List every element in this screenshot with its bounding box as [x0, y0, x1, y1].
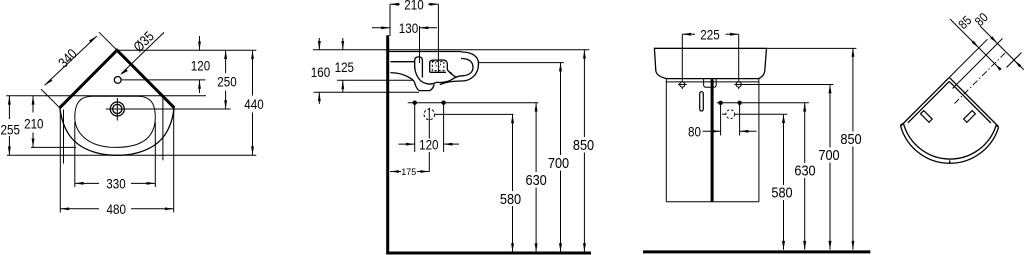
dimension 85 leader: [950, 19, 997, 66]
extension 480 right: [173, 110, 175, 213]
fixing dot left: [413, 101, 417, 105]
svg-text:580: 580: [771, 184, 792, 201]
right tab: [964, 111, 976, 123]
cabinet bottom: [666, 201, 759, 203]
dimension 255: [8, 96, 10, 119]
svg-text:160: 160: [311, 64, 330, 80]
bowl outline: [75, 96, 156, 147]
210 left extension (wall face up): [389, 4, 391, 36]
inner front arc: [903, 123, 996, 159]
dimension 80 (outside arrows): [703, 130, 721, 132]
svg-text:480: 480: [106, 201, 125, 217]
svg-text:580: 580: [500, 190, 521, 207]
dimension 700: [560, 63, 562, 155]
svg-text:440: 440: [244, 96, 263, 112]
back edge left (thick): [60, 50, 175, 108]
door handle slot: [700, 92, 704, 111]
ref line apex level: [117, 49, 256, 51]
fixing screw circle left: [680, 82, 685, 87]
cabinet left side: [665, 79, 667, 202]
210 right extension: [437, 4, 439, 72]
drain inner circle: [113, 104, 122, 113]
svg-text:120: 120: [191, 57, 210, 73]
dimension 210: [32, 96, 34, 113]
extension line L2: [953, 39, 1003, 89]
svg-text:630: 630: [525, 171, 546, 188]
dimension 175: [390, 171, 429, 173]
dot vertical left: [414, 103, 416, 152]
cabinet right side: [758, 79, 760, 202]
door gap (thick): [711, 79, 714, 201]
svg-text:850: 850: [573, 136, 594, 153]
basin top rim (thick): [389, 51, 461, 53]
svg-text:630: 630: [794, 162, 815, 179]
dash-dot drain axis: [955, 53, 1006, 104]
dot vertical right: [443, 103, 445, 152]
svg-text:175: 175: [401, 167, 416, 177]
dimension 125 (outside arrows): [342, 38, 344, 50]
line through dots (630 ref): [717, 102, 809, 104]
tap block bottom edge: [430, 71, 446, 73]
wall (thick vertical): [386, 35, 389, 254]
fixing dot right: [441, 101, 445, 105]
dimension 700: [829, 85, 831, 148]
dimension 120 (outside arrows): [399, 143, 415, 145]
fixing dot right: [737, 101, 741, 105]
tap block: [430, 60, 452, 74]
floor (thick horizontal): [386, 252, 591, 255]
svg-text:120: 120: [419, 136, 438, 152]
dimension 440: [252, 50, 254, 95]
drain vertical: [428, 108, 430, 139]
front rim inner hook: [451, 58, 474, 80]
ref line 160 bottom: [314, 91, 420, 93]
floor (thick): [643, 250, 870, 253]
dimension 630: [535, 103, 537, 172]
trap bump: [704, 79, 717, 88]
drain circle line (580 ref): [435, 113, 514, 115]
ref line rear (255/210 top): [6, 95, 206, 97]
extension 225 right: [738, 34, 740, 89]
svg-text:700: 700: [548, 154, 569, 171]
fixing screw circle right: [736, 82, 741, 87]
fixing dot left: [718, 101, 722, 105]
extension 225 left: [681, 34, 683, 89]
svg-text:330: 330: [106, 175, 125, 191]
dimension 850: [583, 50, 585, 137]
side edge line left: [63, 110, 65, 164]
tap hole dashed square: [432, 61, 444, 70]
dimension 225: [682, 33, 695, 35]
drain boss outline: [414, 82, 434, 91]
bowl front wall upper: [447, 70, 456, 78]
dimension 850: [852, 48, 854, 132]
svg-text:210: 210: [24, 115, 43, 131]
drain dashed circle: [424, 109, 435, 120]
arc right end cap: [996, 125, 998, 127]
ref line 700 top: [479, 62, 564, 64]
line through dots (630 ref): [408, 102, 539, 104]
arc left end cap: [900, 123, 903, 125]
dimension 480: [60, 208, 99, 210]
cabinet top edge: [666, 81, 759, 83]
side edge line right: [162, 96, 164, 161]
dimension 130 (outside arrows): [372, 27, 390, 29]
dimension 580: [783, 114, 785, 185]
tap hole circle: [114, 77, 121, 84]
svg-text:130: 130: [399, 20, 418, 36]
dot verticals: [720, 103, 722, 136]
extension 330 right: [154, 122, 156, 187]
bowl bottom line to drain: [437, 80, 451, 82]
basin front outline: [654, 48, 766, 78]
svg-text:210: 210: [404, 0, 423, 13]
dimension 630: [804, 103, 806, 163]
top ref line (850 top): [313, 49, 589, 51]
svg-text:850: 850: [840, 130, 861, 147]
dimension 210: [390, 3, 400, 5]
dimension 580: [512, 114, 514, 191]
ref line 700 top (through screws): [743, 84, 833, 86]
drain outer circle: [110, 102, 124, 116]
drain dashed circle: [726, 110, 735, 119]
ref line front (255/440 bottom): [7, 154, 256, 156]
svg-text:255: 255: [0, 121, 19, 137]
left wall outer: [901, 77, 950, 126]
door split tick at arc bottom: [949, 160, 951, 163]
tap hole inner hatch: [436, 62, 441, 67]
svg-text:700: 700: [818, 146, 839, 163]
extension line apex 45deg: [99, 32, 117, 50]
overflow finger: [415, 57, 423, 78]
extension line left corner 45deg: [41, 89, 60, 108]
left wall inner: [908, 81, 950, 123]
basin top ref extension (850 top): [654, 47, 856, 49]
svg-text:225: 225: [700, 26, 719, 42]
dimension 80 leader: [980, 26, 1024, 70]
dimension 120 (right, apex to tap): [199, 36, 201, 50]
trap cover sweep: [415, 67, 437, 84]
right wall outer: [949, 77, 998, 126]
dimension 160 (left, outside arrows): [318, 38, 320, 50]
rear apron curve: [390, 73, 414, 82]
leader Ø35: [122, 32, 165, 73]
ref line bowl bottom (210 bottom): [31, 146, 76, 148]
drain line (580 ref): [722, 113, 726, 115]
outer front curve: [60, 108, 174, 156]
dimension 250: [225, 50, 227, 73]
extension 480 left: [59, 110, 61, 213]
deck line wall to finger: [390, 61, 414, 63]
label 175: [401, 168, 417, 176]
drain crosshair vertical: [116, 98, 118, 121]
dimension 330: [75, 182, 99, 184]
extension 330 left: [74, 122, 76, 187]
ref line 125 bottom: [337, 79, 413, 81]
right wall inner: [949, 81, 991, 123]
front rim outer hook: [440, 52, 479, 85]
svg-text:250: 250: [217, 73, 236, 89]
outer front arc: [900, 125, 998, 163]
dimension 340 line: [45, 36, 97, 85]
svg-text:125: 125: [335, 59, 354, 75]
left tab: [921, 111, 933, 123]
drain crosshair horizontal / 250 ref line: [106, 108, 231, 110]
extension line R3: [1007, 53, 1022, 68]
tap center extension (130 right): [419, 26, 421, 63]
extension line R1 from apex: [949, 39, 987, 77]
tap hole horizontal ref line: [121, 79, 205, 81]
svg-text:80: 80: [688, 123, 701, 139]
